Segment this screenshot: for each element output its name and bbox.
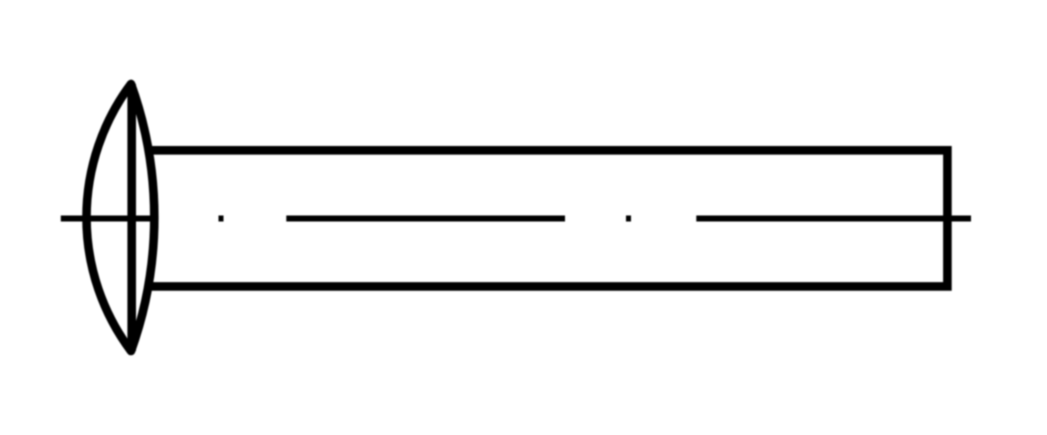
- centerline dot 1: [219, 216, 224, 222]
- centerline dash 3: [696, 216, 971, 222]
- centerline dash 1: [61, 216, 156, 222]
- centerline dot 2: [626, 216, 631, 222]
- rivet head (lens-shaped dome outline): [87, 84, 155, 351]
- rivet shank (cylindrical body outline): [147, 150, 947, 286]
- head flat-face line (vertical chord): [127, 84, 136, 351]
- centerline dash 2: [286, 216, 565, 222]
